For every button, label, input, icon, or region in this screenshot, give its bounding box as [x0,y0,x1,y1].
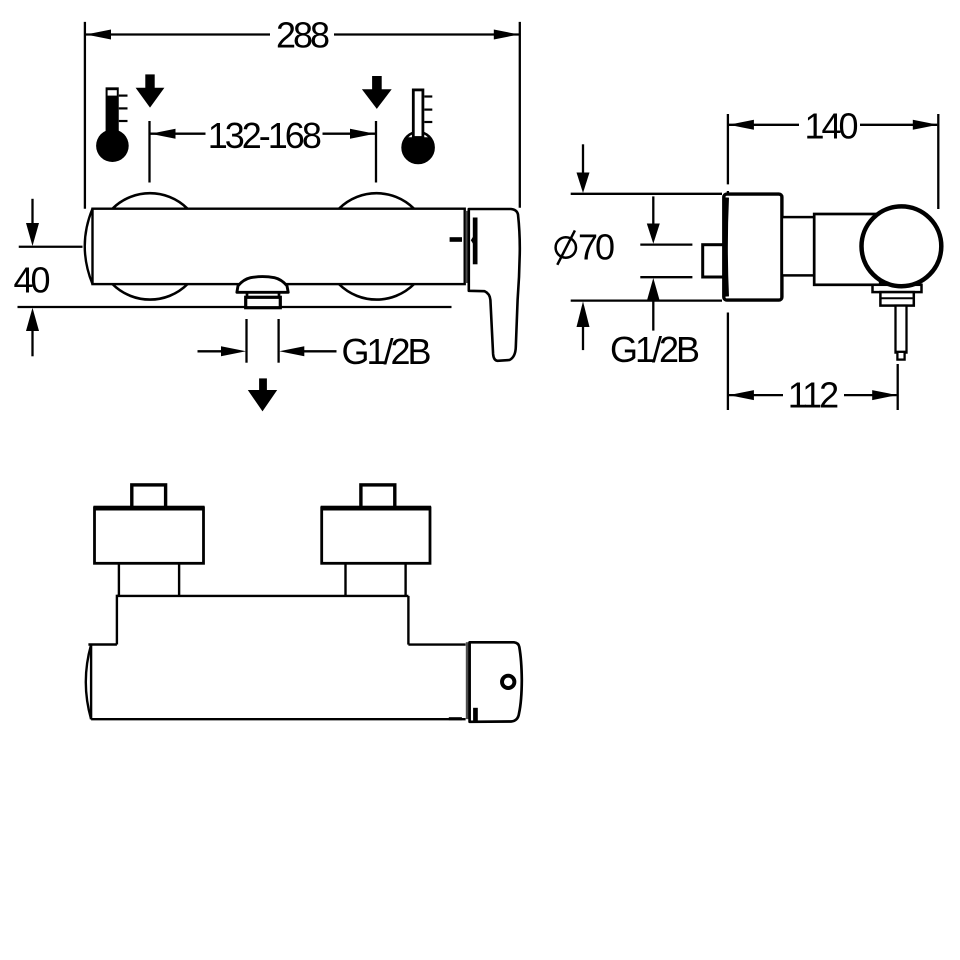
svg-text:132-168: 132-168 [208,115,321,156]
svg-text:112: 112 [788,374,838,415]
svg-text:140: 140 [804,105,857,146]
svg-text:70: 70 [578,227,614,268]
svg-text:288: 288 [276,15,329,56]
svg-text:G1/2B: G1/2B [341,331,430,372]
svg-text:40: 40 [13,260,49,301]
svg-text:G1/2B: G1/2B [610,329,699,370]
